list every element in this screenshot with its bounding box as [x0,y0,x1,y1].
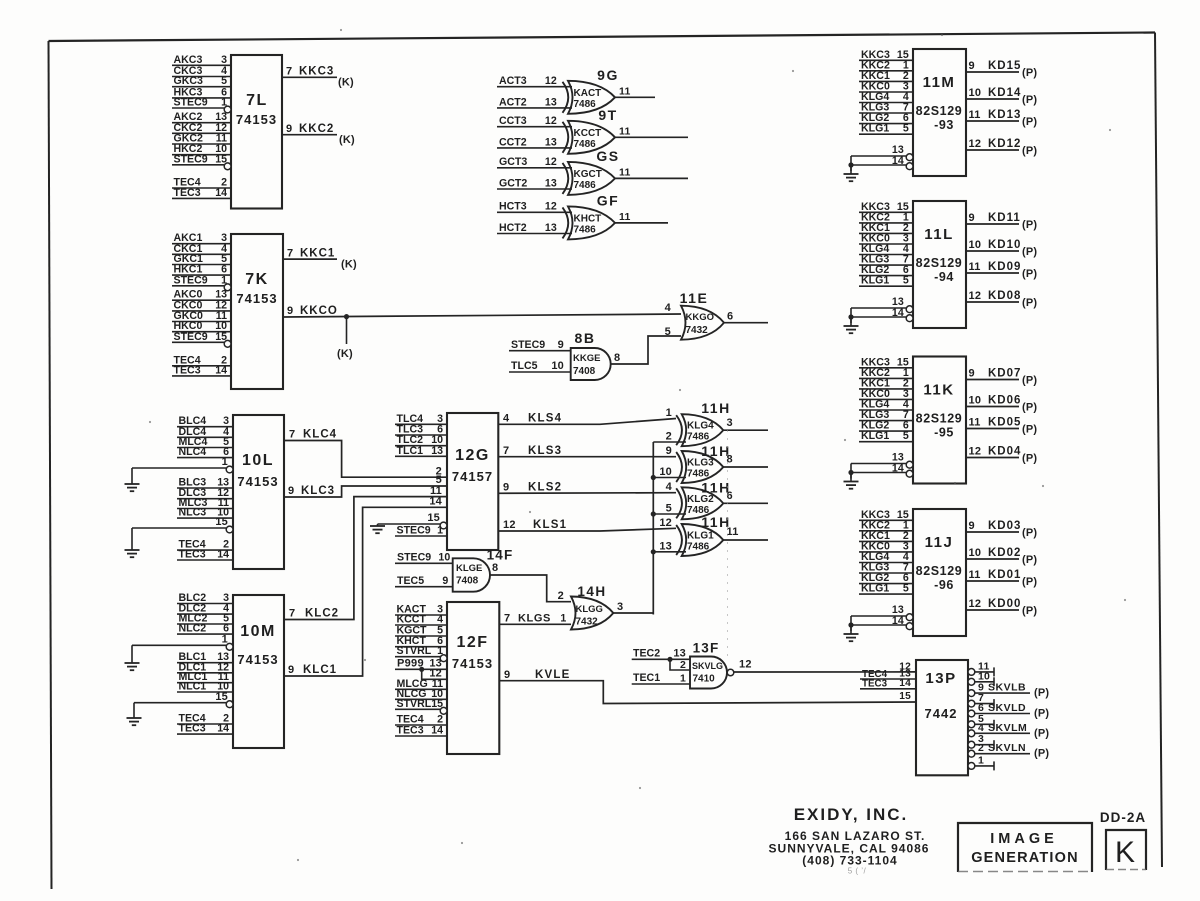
svg-text:12: 12 [969,446,982,458]
10L input MLC3 pin 11 [177,497,233,509]
KKC0 branch to page K [337,317,353,360]
svg-text:82S129: 82S129 [916,564,963,578]
11K output pin 11 net KD05 (P) [966,417,1037,436]
svg-text:GKC3: GKC3 [174,75,204,87]
7L output pin 9 net KKC2 (K) [282,123,355,146]
svg-text:10: 10 [659,466,672,478]
10L input DLC3 pin 12 [177,487,233,499]
junction on KKC0 wire [344,314,349,319]
7K input STEC9 pin 15 [172,331,231,347]
svg-text:(P): (P) [1034,727,1049,739]
svg-text:STEC9: STEC9 [511,339,545,351]
svg-text:14: 14 [899,678,911,689]
13P output pin 11 unused stub [968,660,994,676]
svg-text:13: 13 [545,177,557,189]
svg-text:7: 7 [503,445,509,457]
11J output pin 11 net KD01 (P) [966,569,1037,588]
svg-text:12: 12 [545,115,557,127]
svg-text:10L: 10L [242,452,274,469]
svg-text:14: 14 [892,155,904,167]
svg-text:KLS1: KLS1 [533,519,567,531]
svg-text:14: 14 [215,364,227,376]
7K input TEC4 pin 2 [172,354,231,366]
12F input MLCG pin 11 [395,678,447,690]
prom 11M (82S129 -93) [913,49,966,176]
svg-text:(P): (P) [1022,116,1037,128]
11M output pin 11 net KD13 (P) [966,109,1037,128]
svg-text:KD10: KD10 [988,239,1021,251]
13F input TEC2 pin 13 with junction [632,648,690,662]
11H KLG3 input pin 10 stub from rail [653,466,686,478]
svg-text:STEC9: STEC9 [174,274,208,286]
svg-text:KLS2: KLS2 [528,482,562,494]
13F input pin 2 branch [670,659,690,671]
12F input KHCT pin 6 [395,635,447,647]
svg-text:KLG1: KLG1 [687,531,714,542]
svg-text:12: 12 [969,138,982,150]
11M input KLG1 pin 5 [859,123,913,135]
sheet number DD-2A [1100,810,1146,825]
svg-text:13: 13 [431,445,443,457]
drawing title box IMAGE GENERATION [958,823,1092,872]
svg-text:7: 7 [504,613,510,625]
7L input GKC3 pin 5 [172,75,231,87]
svg-text:(P): (P) [1022,527,1037,539]
svg-text:EXIDY, INC.: EXIDY, INC. [794,805,909,824]
svg-text:13: 13 [545,222,557,234]
svg-text:9: 9 [288,664,294,676]
svg-text:3: 3 [221,54,227,66]
7K input HKC1 pin 6 [172,264,231,276]
12G output pin 7 net KLS3 to 11H KLG3 pin 9 [498,445,676,457]
11L input KLG2 pin 6 [859,264,913,276]
GS input GCT2 pin 13 [497,177,572,189]
11L input KKC2 pin 1 [859,211,913,223]
svg-text:HCT3: HCT3 [499,201,527,213]
svg-text:10: 10 [969,239,982,251]
11M input KKC1 pin 2 [859,70,913,82]
phone (408) 733-1104 [802,854,897,868]
svg-text:(P): (P) [1034,748,1049,760]
svg-text:SKVLN: SKVLN [988,742,1026,754]
svg-text:KLGS: KLGS [518,613,551,625]
svg-text:6: 6 [727,311,733,323]
svg-text:TEC2: TEC2 [633,648,660,660]
svg-text:11L: 11L [924,226,954,243]
svg-text:1: 1 [437,525,443,537]
svg-text:14: 14 [217,723,229,735]
svg-text:3: 3 [617,601,623,613]
svg-text:TEC3: TEC3 [397,725,424,737]
svg-text:STEC9: STEC9 [174,153,208,165]
svg-text:11: 11 [619,85,631,97]
svg-text:KD06: KD06 [988,395,1021,407]
8B input TLC5 pin 10 [509,360,571,372]
svg-text:13P: 13P [925,670,956,687]
svg-text:1: 1 [437,645,443,657]
12F input STVRL pin 15 [395,698,447,714]
10L output pin 7 net KLC4 to 12G pin 2 [284,429,447,478]
svg-text:12: 12 [969,290,982,302]
11J input KKC0 pin 3 [859,540,913,552]
mux 7K (74153) [231,234,283,389]
svg-text:(P): (P) [1022,554,1037,566]
svg-text:4: 4 [978,722,984,734]
7L input STEC9 pin 1 [172,97,231,113]
10L input NLC4 pin 6 [177,446,233,458]
svg-text:11: 11 [619,125,631,137]
svg-text:STVRL: STVRL [397,698,432,710]
faint revision note [848,867,867,876]
svg-text:KD04: KD04 [988,446,1021,458]
svg-text:11: 11 [969,261,981,273]
11H KLG3 input pin 9 [666,445,672,457]
svg-text:10: 10 [551,360,564,372]
svg-text:KGCT: KGCT [574,169,602,180]
svg-text:SKVLG: SKVLG [692,661,723,671]
12G pin 2 number [436,465,442,477]
svg-text:KD02: KD02 [988,547,1021,559]
11L output pin 11 net KD09 (P) [966,261,1037,280]
11M output pin 9 net KD15 (P) [966,60,1037,79]
svg-text:TEC3: TEC3 [179,723,206,735]
11H KLG3 output pin 8 net KLG3 [723,454,768,468]
svg-text:STEC9: STEC9 [397,525,431,537]
svg-text:4: 4 [666,481,673,493]
svg-text:11: 11 [619,211,631,223]
company title EXIDY, INC. [794,805,909,824]
11E output pin 6 [724,311,768,323]
11L input KKC1 pin 2 [859,222,913,234]
svg-text:3: 3 [727,417,733,429]
svg-text:KLC4: KLC4 [303,429,337,441]
svg-text:14: 14 [431,725,443,737]
svg-text:12: 12 [545,75,557,87]
svg-text:KLG1: KLG1 [861,275,889,287]
svg-text:15: 15 [431,698,443,710]
10L output pin 9 net KLC3 to 12G pin 5 [284,485,447,497]
svg-text:1: 1 [222,456,228,468]
svg-text:7: 7 [286,66,292,78]
11H KLG4 input pin 2 stub from rail [653,431,686,443]
7K input CKC1 pin 4 [172,243,231,255]
11E input pin 4 number [665,302,672,314]
7K input CKC0 pin 12 [172,299,231,311]
svg-text:11M: 11M [923,74,956,91]
xor gate 11H (KLG1 7486) [676,514,731,556]
11K chip-enable pins 13,14 grounded [844,452,913,489]
13P output pin 6 net SKVLD (P) [968,702,1049,720]
svg-text:IMAGE: IMAGE [990,831,1058,847]
svg-text:8B: 8B [575,330,596,346]
13P output pin 7 unused stub [968,692,994,708]
12F input pin 12 from P999 branch [422,668,447,680]
xor gate 9T (KCCT 7486) inputs CCT3,CCT2 [563,107,618,154]
11L output pin 9 net KD11 (P) [966,212,1037,231]
svg-text:11H: 11H [701,400,730,416]
7L input TEC4 pin 2 [172,177,231,189]
11E input pin 5 number [665,326,671,338]
svg-text:9: 9 [442,575,448,587]
svg-text:5: 5 [903,430,909,442]
svg-text:KD12: KD12 [988,138,1021,150]
10M strobe pin 1 grounded [125,634,234,671]
svg-text:82S129: 82S129 [916,256,963,270]
svg-text:10M: 10M [240,623,276,640]
svg-text:5: 5 [903,583,909,595]
11J input KKC1 pin 2 [859,530,913,542]
10L input NLC3 pin 10 [177,507,233,519]
12F input STVRL pin 1 [395,645,447,661]
svg-text:GF: GF [597,192,619,208]
svg-text:KLC1: KLC1 [303,664,337,676]
svg-text:13: 13 [673,648,686,660]
11M input KKC2 pin 1 [859,59,913,71]
11K output pin 10 net KD06 (P) [966,395,1037,414]
10L input DLC4 pin 4 [177,426,233,438]
svg-text:KD05: KD05 [988,417,1021,429]
13F output pin 12 wire to 13P pin 12 [734,658,916,672]
7L output pin 7 net KKC3 (K) [282,66,354,89]
7L input GKC2 pin 11 [172,133,231,145]
svg-text:KKC1: KKC1 [300,247,335,259]
11H KLG2 input pin 4 [666,481,673,493]
svg-text:KD15: KD15 [988,60,1021,72]
13P input pin 15 number [899,691,911,702]
svg-text:2: 2 [666,431,672,443]
GF input HCT2 pin 13 [497,222,572,234]
svg-text:CCT3: CCT3 [499,115,527,127]
svg-text:7408: 7408 [573,366,596,377]
11K input KLG2 pin 6 [859,420,913,432]
page letter K box [1106,830,1146,870]
svg-text:10: 10 [438,552,450,564]
svg-text:(P): (P) [1022,576,1037,588]
svg-text:STEC9: STEC9 [174,97,208,109]
faint scanner streak [727,430,729,660]
7K input AKC1 pin 3 [172,232,231,244]
9G output pin 11 net KACT [615,85,655,97]
svg-text:5: 5 [903,275,909,287]
12G input TLC3 pin 6 [395,424,447,436]
10L input BLC3 pin 13 [177,477,233,489]
11K output pin 9 net KD07 (P) [966,368,1037,387]
svg-text:13: 13 [659,540,672,552]
scan specks [149,29,1126,861]
11J output pin 10 net KD02 (P) [966,547,1037,566]
svg-text:KLGE: KLGE [456,563,482,574]
svg-text:7408: 7408 [456,576,479,587]
svg-text:11J: 11J [925,534,954,551]
svg-text:12: 12 [739,658,752,670]
svg-text:SKVLB: SKVLB [988,682,1026,694]
7K input AKC0 pin 13 [172,289,231,301]
11L output pin 12 net KD08 (P) [966,290,1037,309]
GF input HCT3 pin 12 [497,201,572,213]
svg-text:NLC4: NLC4 [179,446,207,458]
svg-text:7486: 7486 [687,432,710,443]
svg-text:11: 11 [969,417,981,429]
svg-text:7486: 7486 [574,180,597,191]
svg-text:KD07: KD07 [988,368,1021,380]
svg-text:15: 15 [427,512,440,524]
svg-text:15: 15 [215,331,227,343]
svg-text:1: 1 [221,274,227,286]
svg-text:HCT2: HCT2 [499,222,527,234]
svg-text:KD11: KD11 [988,212,1021,224]
svg-text:82S129: 82S129 [916,104,963,118]
13P input TEC4 pin 13 [860,669,916,681]
svg-text:14: 14 [429,496,442,508]
svg-text:74153: 74153 [236,112,277,127]
svg-text:9: 9 [969,520,975,532]
svg-text:14: 14 [217,549,229,561]
svg-text:14F: 14F [487,548,514,563]
address line SUNNYVALE, CAL 94086 [769,842,930,856]
10L strobe pin 15 grounded [125,516,234,557]
svg-text:(P): (P) [1022,67,1037,79]
svg-text:9T: 9T [598,107,617,123]
xor gate GF (KHCT 7486) inputs HCT3,HCT2 [563,192,620,239]
svg-text:74153: 74153 [236,291,277,306]
10L strobe pin 1 grounded [125,456,234,491]
svg-text:KHCT: KHCT [574,213,602,224]
svg-text:2: 2 [558,590,564,602]
svg-text:12G: 12G [455,447,490,464]
11K input KKC1 pin 2 [859,377,913,389]
12G input TLC1 pin 13 [395,445,447,457]
11K input KKC2 pin 1 [859,367,913,379]
svg-text:15: 15 [899,691,911,702]
11K input KLG3 pin 7 [859,409,913,421]
svg-text:9: 9 [288,485,294,497]
7K input TEC3 pin 14 [172,364,231,376]
svg-text:TEC3: TEC3 [174,364,201,376]
14F output pin 8 wire to 14H pin 2 [490,562,571,602]
svg-text:KD13: KD13 [988,109,1021,121]
svg-text:1: 1 [680,673,686,685]
8B output pin 8 wire to 11E pin 5 [611,336,681,364]
13P output pin 9 net SKVLB (P) [968,682,1049,700]
10M input NLC1 pin 10 [177,681,233,693]
svg-text:(P): (P) [1022,605,1037,617]
12G pin 14 number [429,496,442,508]
svg-text:11E: 11E [680,290,709,306]
svg-text:1: 1 [222,634,228,646]
xor gate 11H (KLG4 7486) [676,400,731,446]
12G output pin 9 net KLS2 to 11H KLG2 pin 4 [498,482,676,494]
svg-text:9: 9 [504,669,510,681]
7K input STEC9 pin 1 [172,274,231,290]
svg-text:74157: 74157 [452,469,493,484]
svg-text:10: 10 [969,547,982,559]
13P output pin 4 net SKVLM (P) [968,722,1049,740]
svg-text:1: 1 [978,754,984,766]
svg-text:KVLE: KVLE [535,669,570,681]
svg-text:7442: 7442 [925,706,958,721]
13P output pin 3 unused stub [968,733,994,749]
10M output pin 7 net KLC2 to 12G pin 11 [284,497,447,620]
10M output pin 9 net KLC1 to 12G pin 14 [284,507,447,676]
11H KLG4 output pin 3 net KLG4 [723,417,768,430]
svg-text:TEC5: TEC5 [397,575,424,587]
10L input TEC4 pin 2 [177,539,233,551]
11K input KKC0 pin 3 [859,388,913,400]
9T output pin 11 net KCCT [615,125,688,137]
11J input KKC3 pin 15 [859,509,913,521]
svg-text:NLC1: NLC1 [179,681,207,693]
12F input NLCG pin 10 [395,688,447,700]
12F output pin 9 net KVLE wire to 13P pin 15 [499,669,916,704]
address line 166 SAN LAZARO ST. [785,829,926,843]
svg-text:5: 5 [666,503,672,515]
8B input STEC9 pin 9 [509,339,571,351]
11J chip-enable pins 13,14 grounded [844,604,913,641]
11J input KLG4 pin 4 [859,551,913,563]
svg-text:KLG1: KLG1 [861,430,889,442]
svg-text:KD14: KD14 [988,87,1021,99]
svg-text:STVRL: STVRL [397,645,432,657]
12G output pin 12 net KLS1 to 11H KLG1 pin 12 [498,519,676,531]
svg-text:9: 9 [666,445,672,457]
svg-text:TLC1: TLC1 [397,445,424,457]
11M chip-enable pins 13,14 grounded [844,144,913,181]
and gate 8B (KKGE 7408) [571,330,611,380]
12F input P999 pin 13 with branch junction [395,658,447,672]
or gate 11E (KKGO 7432) [680,290,724,340]
11J input KLG2 pin 6 [859,572,913,584]
svg-text:TLC5: TLC5 [511,360,538,372]
svg-text:7486: 7486 [574,139,597,150]
12G pin 5 number [436,474,442,486]
svg-text:2: 2 [978,742,984,754]
xor gate 9G (KACT 7486) inputs ACT3,ACT2 [563,67,619,114]
prom 11L (82S129 -94) [913,201,966,328]
rail from 14H output to 11H second inputs [652,442,654,615]
svg-text:KKCO: KKCO [300,305,338,317]
svg-text:10: 10 [969,87,982,99]
svg-text:SKVLD: SKVLD [988,702,1026,714]
13P input TEC3 pin 14 [860,678,916,689]
junction rail/KLG2 pin 5 [651,511,656,516]
11H KLG1 input pin 13 stub from rail [653,540,686,552]
svg-text:7: 7 [289,608,295,620]
svg-text:7486: 7486 [687,542,710,553]
svg-text:KKC3: KKC3 [299,66,334,78]
7L input CKC3 pin 4 [172,65,231,77]
11J input KKC2 pin 1 [859,519,913,531]
svg-text:KLS4: KLS4 [528,413,562,425]
svg-text:KD01: KD01 [988,569,1021,581]
11J input KLG1 pin 5 [859,583,913,595]
11H KLG2 input pin 5 stub from rail [653,503,686,515]
svg-text:(P): (P) [1022,297,1037,309]
9T input CCT3 pin 12 [497,115,572,127]
svg-text:(K): (K) [341,259,357,271]
svg-text:7432: 7432 [576,617,599,628]
svg-text:11: 11 [969,109,981,121]
svg-text:ACT3: ACT3 [499,75,527,87]
xor gate 11H (KLG3 7486) [676,443,731,483]
svg-text:K: K [1115,836,1135,869]
11K output pin 12 net KD04 (P) [966,446,1037,465]
svg-text:11: 11 [619,166,631,178]
svg-text:CCT2: CCT2 [499,136,527,148]
svg-text:4: 4 [503,413,510,425]
svg-text:13F: 13F [693,641,720,656]
junction rail/KLG3 pin 10 [651,475,656,480]
12F input KACT pin 3 [395,604,447,616]
